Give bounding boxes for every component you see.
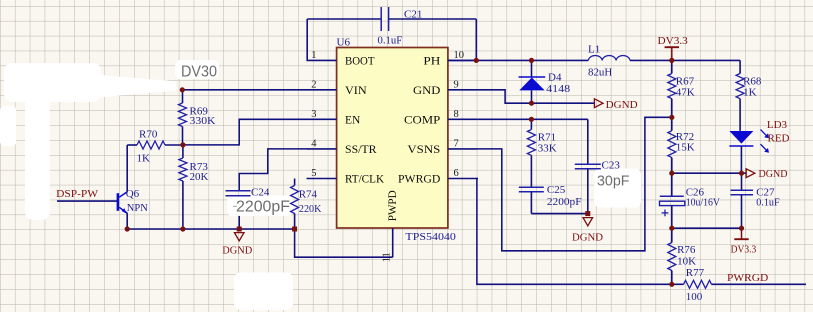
svg-text:PWRGD: PWRGD: [398, 174, 440, 186]
svg-text:5: 5: [311, 168, 316, 179]
svg-text:D4: D4: [548, 71, 562, 83]
svg-text:4: 4: [311, 139, 317, 150]
svg-text:82uH: 82uH: [588, 67, 612, 79]
svg-text:SS/TR: SS/TR: [345, 144, 377, 156]
svg-text:2200pF: 2200pF: [236, 198, 290, 215]
svg-text:C24: C24: [251, 187, 270, 199]
svg-text:2200pF: 2200pF: [547, 196, 582, 208]
svg-text:DGND: DGND: [759, 168, 788, 180]
svg-text:8: 8: [454, 109, 459, 120]
svg-text:C21: C21: [404, 8, 422, 20]
svg-text:DV3.3: DV3.3: [731, 244, 757, 256]
svg-text:LD3: LD3: [767, 119, 788, 131]
svg-text:C25: C25: [547, 184, 566, 196]
svg-text:220K: 220K: [299, 203, 322, 215]
svg-text:10u/16V: 10u/16V: [686, 197, 720, 209]
svg-text:DV3.3: DV3.3: [658, 35, 689, 47]
svg-text:PH: PH: [423, 56, 440, 68]
svg-text:100: 100: [686, 291, 703, 303]
svg-text:RED: RED: [768, 133, 790, 145]
svg-text:R76: R76: [677, 244, 696, 256]
svg-text:DGND: DGND: [222, 244, 252, 256]
svg-text:7: 7: [454, 139, 459, 150]
svg-text:330K: 330K: [190, 115, 216, 127]
svg-text:PWRGD: PWRGD: [727, 272, 768, 284]
svg-text:R77: R77: [686, 267, 705, 279]
svg-text:L1: L1: [588, 44, 600, 56]
svg-text:DGND: DGND: [572, 232, 603, 244]
svg-text:DV30: DV30: [181, 64, 217, 81]
svg-text:11: 11: [381, 252, 392, 262]
svg-text:9: 9: [454, 80, 459, 91]
svg-text:47K: 47K: [676, 86, 695, 98]
svg-text:R70: R70: [139, 128, 158, 140]
svg-text:U6: U6: [337, 36, 351, 48]
svg-text:10: 10: [454, 50, 465, 61]
svg-text:2: 2: [311, 80, 316, 91]
svg-text:15K: 15K: [676, 141, 695, 153]
svg-text:EN: EN: [345, 114, 361, 126]
svg-text:DGND: DGND: [606, 99, 638, 111]
svg-text:COMP: COMP: [404, 114, 440, 126]
svg-text:Q6: Q6: [126, 188, 140, 200]
svg-text:20K: 20K: [190, 171, 209, 183]
svg-text:1K: 1K: [743, 86, 757, 98]
svg-text:GND: GND: [413, 85, 440, 97]
svg-text:0.1uF: 0.1uF: [756, 197, 780, 209]
svg-text:1: 1: [311, 50, 316, 61]
svg-text:3: 3: [311, 109, 316, 120]
svg-text:C23: C23: [602, 160, 621, 172]
svg-text:0.1uF: 0.1uF: [378, 35, 403, 47]
svg-text:30pF: 30pF: [597, 172, 630, 189]
svg-text:4148: 4148: [546, 83, 571, 95]
svg-text:33K: 33K: [538, 142, 557, 154]
svg-text:PWPD: PWPD: [387, 190, 399, 221]
svg-text:R74: R74: [299, 188, 318, 200]
svg-text:DSP-PW: DSP-PW: [56, 188, 99, 200]
svg-text:VIN: VIN: [345, 85, 367, 97]
svg-text:NPN: NPN: [127, 202, 148, 214]
svg-text:TPS54040: TPS54040: [405, 231, 456, 243]
svg-text:10K: 10K: [677, 255, 696, 267]
svg-text:6: 6: [454, 168, 459, 179]
svg-text:1K: 1K: [137, 152, 151, 164]
svg-text:RT/CLK: RT/CLK: [345, 174, 385, 186]
svg-text:BOOT: BOOT: [345, 56, 375, 68]
svg-text:VSNS: VSNS: [407, 144, 440, 156]
